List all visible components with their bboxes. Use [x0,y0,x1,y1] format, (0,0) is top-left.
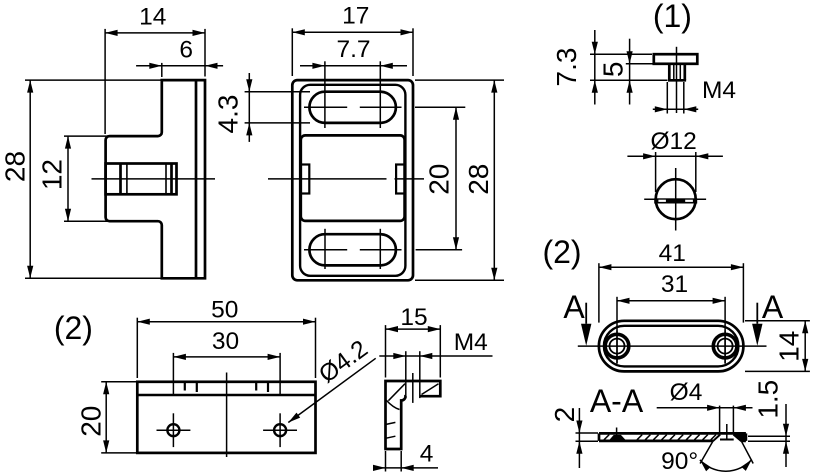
label (2) bottom-left [54,310,93,346]
front view main centerline [268,178,424,180]
dimension 7.3 (stud) [551,30,668,105]
catch plate outline [137,382,315,453]
stud head [654,54,698,64]
front view left notch [301,165,310,194]
stadium plate right hole [713,331,737,364]
svg-text:7.3: 7.3 [551,48,582,87]
leader Ø4.2 (catch plate hole) [288,335,375,422]
stadium plate inner outline [604,326,739,367]
dimension 14 (side view top) [105,3,205,134]
front view right notch [396,165,405,194]
svg-text:Ø4: Ø4 [670,379,703,406]
dimension 50 (catch plate) [137,297,315,379]
front view inner chamfer outline [300,85,405,276]
catch plate top band line [137,394,315,396]
svg-text:(1): (1) [653,0,692,34]
side view inner edge line [195,80,198,278]
front view bottom slot centerline [304,249,402,251]
svg-text:A: A [563,289,585,325]
countersink cone lines (90 deg) [700,441,753,463]
svg-text:41: 41 [659,240,686,267]
bracket M4 hole lines [406,351,420,398]
svg-text:15: 15 [400,304,427,331]
dimension 12 (side view) [37,136,111,221]
label (1) [653,0,692,34]
dimension 17 (front view top) [292,3,413,77]
dimension 2 (section left) [549,407,598,468]
dimension 20 (front view) [415,107,465,250]
stud head circle [656,179,696,219]
svg-text:28: 28 [0,151,31,182]
section right hole countersink [713,424,746,441]
catch plate right hole [263,413,297,447]
svg-text:14: 14 [139,3,166,30]
svg-text:4: 4 [420,441,434,468]
dimension 41 (stadium plate) [599,240,744,323]
front view top slot [309,92,396,123]
dimension M4 (stud) [653,77,736,114]
svg-text:(2): (2) [542,234,581,270]
stud head circle crosshair [644,168,706,231]
dimension Ø4 (section) [657,379,753,433]
catch plate centerline [226,373,228,458]
section arrow A left [563,289,591,346]
svg-text:6: 6 [179,37,193,64]
stadium plate outer outline [599,321,744,372]
stadium plate left hole [605,331,629,364]
bracket hatching [386,384,439,439]
svg-text:Ø12: Ø12 [650,128,696,155]
svg-text:30: 30 [212,328,239,355]
dimension 14 (stadium plate) [745,321,810,372]
dimension 20 (catch plate) [76,382,137,453]
dimension M4 (bracket) [379,329,492,359]
bracket hole centerline [412,373,414,403]
front view outer outline [292,80,413,280]
svg-text:4.3: 4.3 [213,95,244,134]
front view bottom slot center ticks [325,229,380,269]
dimension 30 (catch plate) [173,328,280,395]
svg-text:31: 31 [661,271,688,298]
svg-text:14: 14 [774,331,805,362]
section arrow A right [752,289,784,346]
svg-text:(2): (2) [54,310,93,346]
svg-text:A-A: A-A [590,383,644,419]
side view M4 thread hole rect [106,164,177,195]
svg-text:20: 20 [424,164,455,195]
dimension Ø12 (stud head circle) [627,128,723,192]
svg-text:M4: M4 [454,329,488,356]
section bar hatching [604,435,716,440]
section bar outline [599,433,746,441]
dimension 4 (bracket) [373,441,438,472]
catch plate band ticks [185,383,268,392]
svg-text:M4: M4 [702,77,736,104]
stud centerline [676,47,678,113]
svg-text:20: 20 [76,406,107,437]
bracket outline [384,381,440,449]
stud screwdriver slot [654,198,697,203]
svg-text:50: 50 [211,297,238,324]
dimension 28 (front view right) [415,80,504,280]
dimension 7.7 (front view) [300,36,407,128]
catch plate left hole [157,413,191,447]
svg-text:2: 2 [549,407,580,423]
front view bottom slot [309,234,395,265]
svg-text:A: A [762,289,784,325]
svg-text:17: 17 [342,3,369,30]
dimension 6 (side view) [136,37,223,78]
svg-text:12: 12 [37,159,68,190]
svg-text:90°: 90° [661,448,698,475]
svg-text:1.5: 1.5 [753,380,784,419]
svg-text:28: 28 [463,164,494,195]
dimension 5 (stud) [598,39,653,105]
side view centerline [92,178,216,180]
90 degree angle arc [661,448,752,475]
dimension 1.5 (section right) [748,380,790,467]
svg-text:7.7: 7.7 [336,36,370,63]
dimension 28 (side view left) [0,80,161,278]
section line A-A [578,345,767,347]
dimension 15 (bracket) [386,304,441,378]
front view middle cavity [301,135,405,221]
label (2) bottom-right [542,234,581,270]
front view top slot centerline [304,106,402,108]
label A-A [590,383,644,419]
dimension 4.3 (front view left) [213,73,311,142]
svg-text:5: 5 [598,62,629,78]
side view body outline [106,80,205,278]
stud stem [668,64,686,81]
dimension 31 (stadium plate) [617,271,725,364]
section left hole countersink [610,428,626,440]
